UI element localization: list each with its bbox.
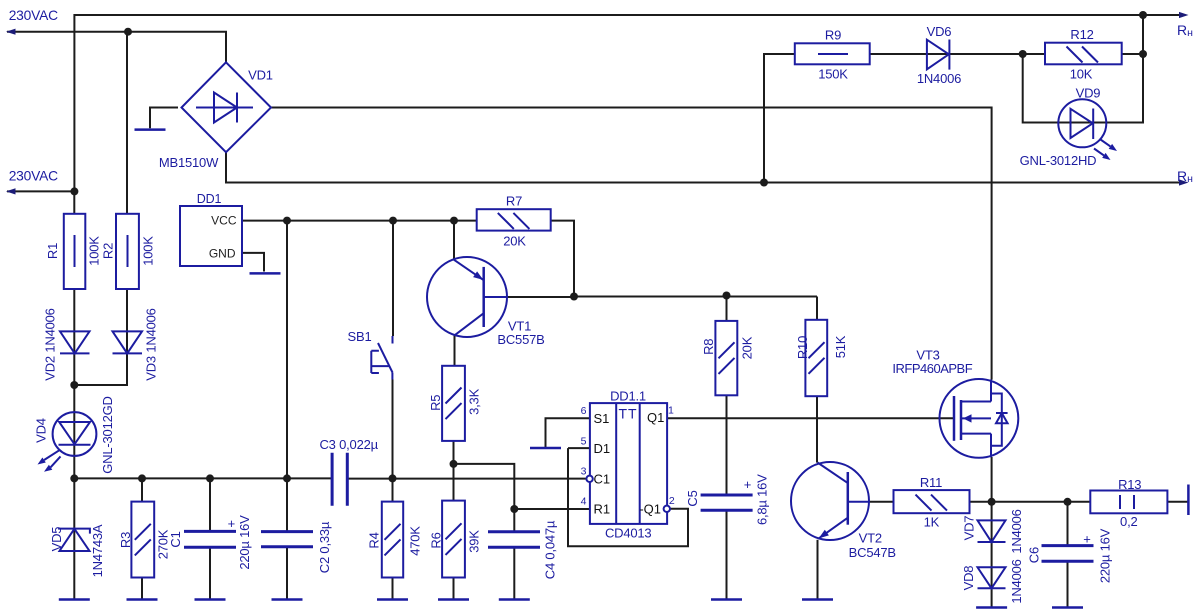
svg-text:4: 4 <box>581 495 587 507</box>
svg-text:220µ 16V: 220µ 16V <box>237 515 252 570</box>
svg-text:1N4006: 1N4006 <box>917 71 961 86</box>
svg-text:C1: C1 <box>168 531 183 547</box>
svg-text:D1: D1 <box>594 441 611 456</box>
svg-text:150K: 150K <box>818 67 848 82</box>
svg-text:BC557B: BC557B <box>497 332 544 347</box>
svg-text:5: 5 <box>581 436 587 448</box>
svg-text:R3: R3 <box>118 532 133 548</box>
svg-text:1N4743A: 1N4743A <box>90 524 105 577</box>
svg-text:VD4: VD4 <box>34 418 49 443</box>
svg-text:0,2: 0,2 <box>1120 514 1137 529</box>
svg-text:VD6: VD6 <box>927 24 952 39</box>
svg-text:R10: R10 <box>795 336 810 359</box>
svg-text:C6: C6 <box>1027 547 1042 563</box>
svg-text:+: + <box>744 477 751 492</box>
svg-text:SB1: SB1 <box>348 329 372 344</box>
svg-text:R4: R4 <box>367 532 382 548</box>
svg-text:MB1510W: MB1510W <box>159 155 219 170</box>
svg-text:VD1: VD1 <box>248 68 273 83</box>
svg-text:10K: 10K <box>1070 67 1093 82</box>
svg-text:R9: R9 <box>825 28 841 43</box>
svg-text:51K: 51K <box>833 335 848 358</box>
svg-text:R11: R11 <box>920 475 942 490</box>
svg-text:R2: R2 <box>101 243 116 259</box>
svg-text:GNL-3012GD: GNL-3012GD <box>100 396 115 473</box>
svg-text:R12: R12 <box>1070 27 1093 42</box>
svg-text:230VAC: 230VAC <box>9 168 58 183</box>
svg-text:39K: 39K <box>467 530 482 553</box>
svg-text:6: 6 <box>581 405 587 417</box>
svg-text:+: + <box>228 516 235 531</box>
svg-text:Q1: Q1 <box>647 410 664 425</box>
svg-text:C5: C5 <box>685 490 700 506</box>
svg-text:DD1.1: DD1.1 <box>610 389 646 404</box>
svg-text:R13: R13 <box>1118 477 1141 492</box>
svg-text:3,3K: 3,3K <box>466 388 481 414</box>
svg-text:R8: R8 <box>701 339 716 355</box>
svg-text:1N4006: 1N4006 <box>1009 559 1024 603</box>
svg-text:R7: R7 <box>506 193 522 208</box>
svg-text:C1: C1 <box>594 472 611 487</box>
svg-text:470K: 470K <box>408 526 423 556</box>
svg-text:VD2 1N4006: VD2 1N4006 <box>43 308 58 380</box>
svg-text:20K: 20K <box>739 336 754 359</box>
svg-text:CD4013: CD4013 <box>605 526 652 541</box>
svg-text:VT2: VT2 <box>859 531 882 546</box>
svg-text:R6: R6 <box>429 532 444 548</box>
svg-text:VCC: VCC <box>211 213 237 227</box>
svg-text:6,8µ 16V: 6,8µ 16V <box>755 474 770 525</box>
svg-text:220µ 16V: 220µ 16V <box>1098 528 1113 583</box>
svg-text:C2 0,33µ: C2 0,33µ <box>317 521 332 573</box>
svg-text:VD9: VD9 <box>1076 86 1101 101</box>
svg-text:TT: TT <box>618 406 637 422</box>
svg-text:GNL-3012HD: GNL-3012HD <box>1020 153 1097 168</box>
svg-text:VD8: VD8 <box>961 566 976 591</box>
svg-text:-Q1: -Q1 <box>639 502 661 517</box>
svg-text:20K: 20K <box>503 233 526 248</box>
svg-text:3: 3 <box>581 465 587 477</box>
svg-text:1: 1 <box>668 405 674 417</box>
svg-text:IRFP460APBF: IRFP460APBF <box>892 361 972 376</box>
svg-text:VD3 1N4006: VD3 1N4006 <box>144 308 159 380</box>
svg-text:VD7: VD7 <box>962 516 977 541</box>
svg-text:100K: 100K <box>87 236 102 266</box>
svg-text:R1: R1 <box>45 243 60 259</box>
svg-text:DD1: DD1 <box>197 192 222 206</box>
svg-text:C3 0,022µ: C3 0,022µ <box>319 437 378 452</box>
svg-text:R1: R1 <box>594 502 611 517</box>
svg-text:VD5: VD5 <box>49 527 64 552</box>
svg-text:S1: S1 <box>594 411 610 426</box>
svg-text:2: 2 <box>669 495 675 507</box>
svg-text:1N4006: 1N4006 <box>1009 509 1024 553</box>
svg-text:R5: R5 <box>428 395 443 411</box>
svg-text:GND: GND <box>209 246 236 260</box>
svg-text:100K: 100K <box>141 236 156 266</box>
svg-text:1K: 1K <box>924 515 940 530</box>
svg-text:230VAC: 230VAC <box>9 8 58 23</box>
svg-text:BC547B: BC547B <box>849 545 896 560</box>
svg-text:C4 0,047µ: C4 0,047µ <box>543 520 558 579</box>
svg-text:+: + <box>1083 532 1090 547</box>
